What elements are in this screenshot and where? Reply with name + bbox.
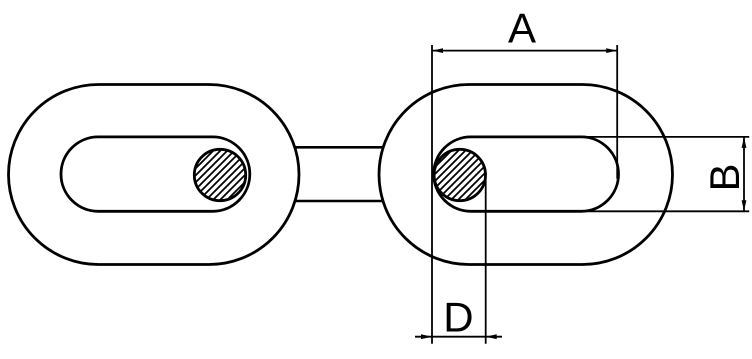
svg-text:B: B — [701, 163, 748, 191]
svg-text:A: A — [508, 5, 536, 52]
svg-text:D: D — [443, 293, 473, 340]
